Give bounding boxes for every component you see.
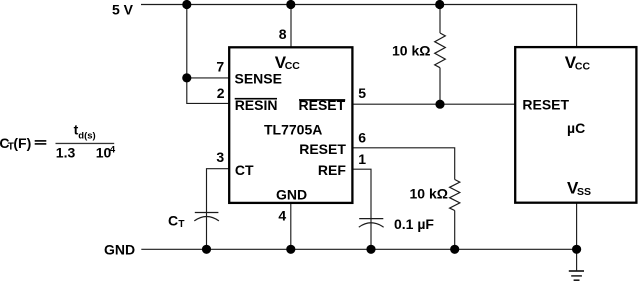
svg-text:GND: GND [104, 242, 135, 258]
svg-text:5: 5 [358, 85, 366, 101]
svg-text:T: T [8, 142, 14, 153]
svg-text:T: T [178, 219, 184, 230]
svg-text:µC: µC [567, 120, 585, 136]
svg-text:SS: SS [577, 186, 591, 198]
svg-text:RESET: RESET [299, 141, 346, 157]
svg-text:7: 7 [216, 59, 224, 75]
svg-text:GND: GND [276, 187, 307, 203]
svg-text:3: 3 [216, 149, 224, 165]
svg-text:C: C [168, 212, 178, 228]
svg-text:2: 2 [217, 85, 225, 101]
svg-text:10 kΩ: 10 kΩ [410, 185, 448, 201]
svg-text:CT: CT [235, 162, 254, 178]
svg-text:8: 8 [279, 26, 287, 42]
svg-text:CC: CC [575, 60, 591, 72]
svg-text:1: 1 [358, 151, 366, 167]
svg-text:SENSE: SENSE [235, 70, 282, 86]
svg-text:4: 4 [110, 144, 116, 155]
svg-text:d(s): d(s) [78, 131, 95, 142]
svg-text:(F): (F) [13, 135, 31, 151]
svg-text:0.1 µF: 0.1 µF [394, 216, 434, 232]
svg-text:10 kΩ: 10 kΩ [392, 42, 430, 58]
svg-text:CC: CC [285, 60, 301, 72]
svg-text:5 V: 5 V [112, 2, 134, 18]
svg-text:1.3: 1.3 [56, 144, 76, 160]
svg-text:TL7705A: TL7705A [264, 122, 322, 138]
svg-text:4: 4 [278, 207, 286, 223]
svg-text:RESET: RESET [522, 97, 569, 113]
svg-text:6: 6 [358, 130, 366, 146]
svg-text:REF: REF [318, 162, 346, 178]
